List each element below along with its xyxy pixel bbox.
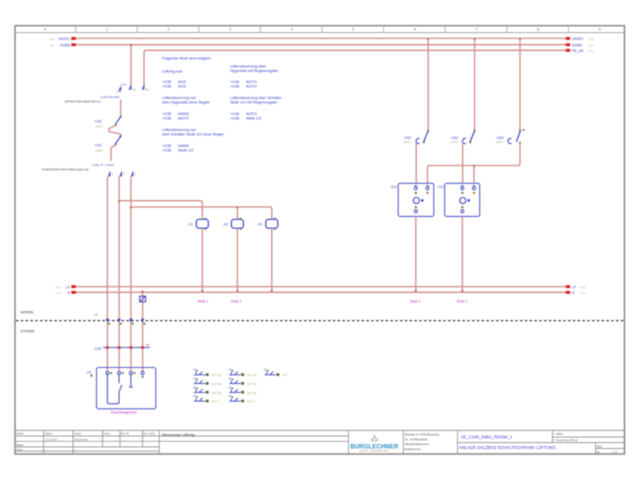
svg-text:+U3b: +U3b: [230, 84, 239, 89]
svg-text:-1U2: -1U2: [437, 185, 444, 189]
svg-text:GLT St1: GLT St1: [212, 373, 222, 377]
svg-text:/ 5.1: / 5.1: [580, 285, 586, 289]
branch to coil K1: [119, 201, 202, 219]
node N left endpoint: [71, 291, 75, 294]
svg-text:HAND: HAND: [96, 148, 103, 152]
wire to contact CM1a: [120, 100, 122, 117]
contact group col2 row2: [228, 377, 257, 387]
svg-text:über Schalter Stufe 1/2 ohne R: über Schalter Stufe 1/2 ohne Regler: [162, 132, 225, 137]
wire from CM1b down: [111, 145, 116, 161]
junction K3 at N bus: [270, 290, 273, 292]
contact group col3 row1: [264, 368, 288, 378]
svg-text:Datum: Datum: [45, 433, 52, 436]
svg-text:(OPTION WID HAND DIR LÜ): (OPTION WID HAND DIR LÜ): [65, 100, 101, 104]
junction K1 at N bus: [201, 290, 204, 292]
junction drop3 on 24VDC: [519, 38, 522, 40]
bus 24VDC top: [76, 37, 567, 39]
contact group col1 row2: [193, 377, 222, 387]
svg-text:-CM3: -CM3: [496, 136, 504, 140]
wire drop switch CM1 right: [427, 38, 429, 130]
mode text block column 2: [230, 63, 282, 120]
svg-text:burglechner.at: burglechner.at: [405, 448, 421, 451]
junction at 474/165.5: [473, 166, 476, 168]
stub from N bus with sensor symbol: [140, 291, 146, 348]
branch to coils K2 K3: [131, 207, 272, 219]
svg-text:-CM2: -CM2: [403, 136, 411, 140]
coil K2: [231, 218, 243, 292]
svg-text:GLT St2: GLT St2: [212, 382, 222, 386]
junction U2 at N bus: [461, 290, 464, 292]
svg-text:0: 0: [44, 28, 46, 32]
junction drop2 on 24VDC: [473, 38, 476, 40]
contact group col1 row4: [193, 394, 219, 404]
node 0V left endpoint: [71, 43, 75, 46]
svg-text:+U32 %v=000: +U32 %v=000: [100, 95, 120, 99]
node PE_AE right endpoint: [566, 49, 570, 52]
mode text block column 1: [162, 56, 225, 153]
company logo icon: [372, 435, 378, 441]
bus UP bottom: [76, 286, 567, 288]
switch S2: [462, 130, 475, 183]
switch S3: [508, 129, 525, 143]
svg-text:EXTERN: EXTERN: [21, 330, 35, 334]
svg-text:AE_C100_INBU_ROOM_1: AE_C100_INBU_ROOM_1: [461, 434, 513, 439]
svg-text:/ 3.1: / 3.1: [56, 291, 62, 295]
svg-text:office@burglechner.at: office@burglechner.at: [405, 443, 430, 446]
svg-text:24VDC: 24VDC: [572, 37, 584, 41]
interruption arrow B x131: [129, 85, 131, 90]
svg-text:~: ~: [461, 199, 463, 203]
svg-text:Stufe 1: Stufe 1: [198, 300, 209, 304]
svg-text:24VDC: 24VDC: [58, 37, 70, 41]
junction W2 branch: [118, 201, 121, 203]
svg-text:Urspr.: Urspr.: [104, 433, 111, 436]
svg-text:4: 4: [291, 28, 293, 32]
svg-text:+U32_P = HIGH: +U32_P = HIGH: [92, 163, 114, 167]
relay box U1: [398, 183, 434, 292]
contact group col2 row1: [228, 368, 257, 378]
node 24VDC right endpoint: [566, 37, 570, 40]
svg-text:3: 3: [229, 28, 231, 32]
svg-text:über Hygrostat ohne Regler: über Hygrostat ohne Regler: [162, 100, 210, 105]
coil K3: [266, 218, 278, 292]
svg-text:PE: PE: [146, 344, 150, 347]
svg-text:13.01.2017: 13.01.2017: [45, 438, 58, 441]
branch drop to coil K2: [236, 207, 238, 219]
svg-text:Tel. +43 5552/63033: Tel. +43 5552/63033: [405, 438, 428, 441]
svg-text:0V/8N: 0V/8N: [60, 43, 70, 47]
switch CM1b: [115, 135, 122, 145]
svg-text:+U3b: +U3b: [230, 115, 239, 120]
svg-text:-K2: -K2: [223, 223, 228, 227]
svg-text:/3.2: /3.2: [132, 88, 137, 92]
bus PE_AE top: [144, 50, 567, 84]
svg-text:2: 2: [168, 28, 170, 32]
node 24VDC left endpoint: [71, 37, 75, 40]
svg-text:INTERN: INTERN: [21, 311, 34, 315]
node UP left endpoint: [71, 285, 75, 288]
svg-text:Gepr.: Gepr.: [17, 448, 23, 451]
svg-text:Name: Name: [75, 433, 82, 436]
interruption arrow A x120: [119, 87, 121, 92]
wire W1 x107.4 long vertical: [106, 177, 108, 348]
svg-text:Datum: Datum: [17, 433, 24, 436]
svg-text:GLT St3: GLT St3: [247, 391, 257, 395]
wire drop from 0V to interruption B: [130, 45, 132, 85]
svg-text:GLT St1: GLT St1: [247, 373, 257, 377]
svg-text:Talstraße 21 / 6706 Bürserberg: Talstraße 21 / 6706 Bürserberg: [405, 434, 440, 437]
interruption arrow E x121.5: [119, 172, 121, 177]
svg-text:+U: +U: [94, 313, 98, 317]
svg-text:ELEKTRO · ANLAGENTECHNIK: ELEKTRO · ANLAGENTECHNIK: [360, 450, 390, 453]
svg-text:GLT: GLT: [283, 373, 288, 377]
node UP right endpoint: [566, 285, 570, 288]
switch S1: [416, 130, 429, 183]
column numbers: [44, 28, 600, 32]
bus N bottom: [76, 291, 567, 293]
svg-text:6: 6: [414, 28, 416, 32]
svg-text:AUTO: AUTO: [96, 124, 103, 128]
svg-text:/ 3.1: / 3.1: [56, 285, 62, 289]
svg-text:/ 3.1: / 3.1: [49, 37, 55, 41]
relay box U2: [445, 183, 480, 292]
svg-text:+U3b: +U3b: [162, 115, 171, 120]
node N right endpoint: [566, 291, 570, 294]
box pins: [106, 372, 144, 378]
bus 0V top: [76, 44, 567, 46]
svg-text:/ 5.1: / 5.1: [588, 37, 594, 41]
company address: [405, 434, 440, 451]
svg-text:GLT 4: GLT 4: [212, 400, 220, 404]
interruption arrow F x133: [131, 172, 133, 177]
switch CM1a: [115, 116, 122, 126]
svg-text:Burglechner: Burglechner: [75, 438, 89, 441]
svg-text:KONTAKTOR AUTO HAND (Stufe 1/2: KONTAKTOR AUTO HAND (Stufe 1/2): [42, 168, 88, 172]
svg-text:= Steuerung_Lüftung: = Steuerung_Lüftung: [554, 439, 578, 442]
svg-text:-CM1: -CM1: [94, 119, 102, 123]
svg-text:GLT St2: GLT St2: [247, 382, 257, 386]
svg-text:Stufe 2: Stufe 2: [457, 300, 468, 304]
svg-text:+ SBAD: + SBAD: [554, 433, 563, 436]
svg-text:PE_AE: PE_AE: [572, 49, 584, 53]
svg-text:~: ~: [415, 199, 417, 203]
svg-text:Lüftung aus: Lüftung aus: [162, 69, 182, 74]
node 0V right endpoint: [566, 43, 570, 46]
green mark under tag: [91, 375, 93, 377]
junction K2 at N bus: [236, 290, 239, 292]
junction drop1 on 24VDC: [427, 38, 430, 40]
svg-text:GLT 4: GLT 4: [247, 400, 255, 404]
wire W3 x130.9 long vertical: [130, 177, 132, 348]
svg-text:/3.2: /3.2: [145, 88, 150, 92]
svg-text:1: 1: [106, 28, 108, 32]
svg-text:+U3b: +U3b: [162, 147, 171, 152]
svg-text:GLT St3: GLT St3: [212, 391, 222, 395]
svg-text:LP: LP: [66, 285, 71, 289]
svg-text:AUTO: AUTO: [246, 84, 257, 89]
svg-text:+U3b: +U3b: [162, 84, 171, 89]
svg-text:Rauchfangkehrer: Rauchfangkehrer: [111, 411, 138, 415]
wire drop switch CM3 right: [519, 38, 521, 130]
contact group col1 row1: [193, 368, 222, 378]
svg-text:-K3: -K3: [257, 223, 262, 227]
svg-text:9: 9: [599, 28, 601, 32]
junction on 0V at x131: [130, 45, 133, 47]
junction W3 branch: [129, 207, 132, 209]
internal contact wiring: [107, 375, 119, 404]
coil K1: [196, 218, 208, 292]
internal stub pin3: [130, 375, 132, 387]
svg-text:8: 8: [537, 28, 539, 32]
svg-text:-U5: -U5: [86, 371, 91, 375]
wire S3 down and across: [428, 143, 521, 183]
wire W2 x119.1 long vertical: [118, 177, 120, 348]
svg-text:AUTO: AUTO: [178, 115, 189, 120]
svg-text:-1U1: -1U1: [390, 185, 397, 189]
crossing marks at dashed line: [106, 319, 145, 323]
svg-text:BURGLECHNER: BURGLECHNER: [350, 445, 398, 451]
wire drop switch CM2 right: [474, 38, 476, 130]
svg-text:AUTO: AUTO: [451, 140, 458, 144]
svg-text:-CM2: -CM2: [450, 136, 458, 140]
junction K2 branch: [236, 207, 239, 209]
svg-text:/ 5.1: / 5.1: [588, 43, 594, 47]
svg-text:/ 5.1: / 5.1: [580, 291, 586, 295]
svg-text:7: 7: [476, 28, 478, 32]
svg-text:-X2W: -X2W: [94, 347, 102, 351]
terminal strip X2: [103, 344, 150, 349]
svg-text:5: 5: [352, 28, 354, 32]
svg-text:Folgende Modi sind möglich :: Folgende Modi sind möglich :: [162, 56, 213, 61]
svg-text:AUTO: AUTO: [496, 140, 503, 144]
svg-text:Stufe 2: Stufe 2: [231, 300, 242, 304]
svg-text:L1.1: L1.1: [121, 83, 127, 87]
title block grid: [15, 430, 625, 454]
junction U1 at N bus: [414, 290, 417, 292]
svg-text:AUTO: AUTO: [404, 140, 411, 144]
svg-text:1 / 9: 1 / 9: [612, 451, 617, 454]
box Rauchfangkehrer: [97, 368, 156, 409]
svg-text:Steuerung Lüftung: Steuerung Lüftung: [162, 432, 195, 437]
interruption arrow D x110: [108, 172, 110, 177]
svg-text:Bl.: Bl.: [597, 451, 600, 454]
svg-text:Stufe 1: Stufe 1: [410, 300, 421, 304]
internal contact: [119, 385, 122, 391]
wire jog between contacts: [109, 125, 121, 136]
svg-text:-K1: -K1: [188, 223, 193, 227]
svg-text:Ers. durch: Ers. durch: [144, 433, 156, 436]
interruption arrow C x144: [142, 85, 144, 90]
boundary dashed line: [16, 320, 624, 322]
wires into box: [106, 348, 108, 372]
svg-text:0V/8N: 0V/8N: [572, 43, 582, 47]
svg-text:/ 5.1: / 5.1: [588, 49, 594, 53]
svg-text:/ 3.1: / 3.1: [49, 43, 55, 47]
svg-text:Blatt: Blatt: [597, 445, 602, 448]
contact group col2 row4: [228, 394, 254, 404]
svg-text:AUS: AUS: [178, 84, 186, 89]
svg-text:LP: LP: [572, 285, 577, 289]
svg-text:ANLAGE SALZBAD SCHALTSCHRANK L: ANLAGE SALZBAD SCHALTSCHRANK LÜFTUNG: [459, 445, 557, 450]
svg-text:Ers. für: Ers. für: [121, 433, 129, 436]
svg-text:Stufe 1/2: Stufe 1/2: [246, 115, 262, 120]
contact group col2 row3: [228, 385, 257, 395]
branch to box2 right pin: [473, 166, 475, 184]
svg-text:Hygrostat mit Regelvorgabe: Hygrostat mit Regelvorgabe: [230, 68, 278, 73]
title block small labels: [17, 433, 156, 436]
svg-text:/3.2: /3.2: [117, 90, 122, 94]
svg-text:Stufe 1/2: Stufe 1/2: [178, 147, 194, 152]
svg-text:-CM1: -CM1: [94, 143, 102, 147]
svg-text:Bearb.: Bearb.: [17, 444, 25, 447]
column ticks header: [76, 26, 569, 33]
contact group col1 row3: [193, 385, 222, 395]
svg-text:Stufe 1/2 mit Regelvorgabe: Stufe 1/2 mit Regelvorgabe: [230, 100, 277, 105]
